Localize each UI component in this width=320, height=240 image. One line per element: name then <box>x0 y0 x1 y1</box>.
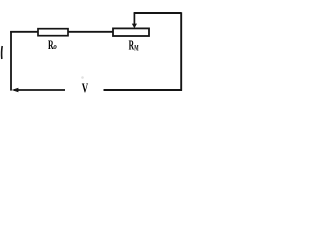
wire left rail <box>10 31 12 91</box>
wiper wire vertical <box>133 13 135 25</box>
resistor RM body (potentiometer) <box>113 28 149 36</box>
wire between resistors <box>68 31 113 33</box>
stray mark at left edge <box>1 46 4 59</box>
label Ro <box>48 37 57 52</box>
wire bottom right <box>104 89 183 91</box>
svg-text:o: o <box>53 41 56 51</box>
wiper arrowhead <box>132 24 137 29</box>
svg-text:M: M <box>134 43 139 52</box>
resistor Ro body <box>38 29 68 36</box>
svg-text:V: V <box>82 81 88 96</box>
wire top left <box>10 31 38 33</box>
label RM <box>129 38 139 53</box>
scan smudge <box>81 76 84 79</box>
wire bottom left <box>14 89 65 91</box>
wire right rail <box>180 12 182 91</box>
wire top right <box>134 12 182 14</box>
arrowhead at bottom left pointing left <box>12 88 19 92</box>
